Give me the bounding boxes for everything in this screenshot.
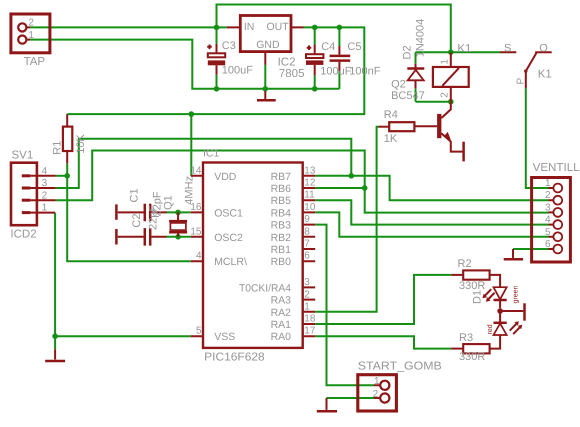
junction relay coil pin1 node (448, 49, 454, 55)
wire C5 bottom (338, 71, 340, 89)
svg-text:4: 4 (42, 166, 48, 177)
svg-text:SV1: SV1 (12, 149, 34, 161)
wire TAP pin1 to ground rail (30, 40, 339, 89)
wire C5 top (338, 27, 340, 46)
wire D2 anode down (415, 88, 417, 101)
svg-text:100nF: 100nF (349, 65, 380, 77)
svg-text:D1: D1 (472, 290, 484, 304)
resistor R2 (451, 270, 500, 286)
svg-text:2: 2 (440, 92, 451, 98)
junction relay coil pin2 node (448, 99, 454, 105)
svg-text:6: 6 (545, 239, 551, 250)
wire +5V to IC1 VDD (190, 114, 192, 176)
wire ground stub below VSS node (54, 336, 56, 349)
svg-text:7: 7 (304, 239, 310, 250)
wire C4 bottom (314, 75, 316, 89)
svg-text:S: S (504, 43, 511, 55)
svg-text:18: 18 (304, 314, 316, 325)
connector START_GOMB (358, 375, 397, 411)
svg-text:330R: 330R (459, 351, 485, 363)
junction RB6 (362, 185, 368, 191)
svg-text:O: O (539, 42, 548, 54)
capacitor C1 (116, 204, 166, 222)
wire 7805 GND to rail (264, 65, 266, 89)
svg-text:MCLR\: MCLR\ (214, 256, 247, 268)
wire RA0 to R3 (315, 336, 451, 348)
svg-text:3: 3 (304, 277, 310, 288)
svg-text:2: 2 (304, 289, 310, 300)
junction VDD tee (189, 111, 195, 117)
wire OSC1 (166, 211, 191, 213)
svg-text:5: 5 (196, 326, 202, 337)
svg-text:11: 11 (304, 190, 315, 201)
svg-text:7805: 7805 (279, 68, 305, 80)
connector VENTILL (532, 178, 571, 263)
svg-text:2: 2 (545, 190, 551, 201)
wire RB6 stub (315, 187, 365, 189)
svg-text:6: 6 (304, 251, 310, 262)
svg-text:1: 1 (28, 30, 34, 41)
wire RB5 to VENTILL pin4 (315, 200, 548, 224)
svg-text:15: 15 (190, 226, 202, 237)
svg-text:C1: C1 (129, 188, 141, 202)
LED D1 red (494, 314, 523, 336)
wire RA1 to R2 (315, 275, 451, 324)
relay K1 coil (433, 52, 469, 101)
junction OSC1 (175, 210, 181, 216)
junction C4 bottom (312, 86, 318, 92)
svg-text:RB3: RB3 (271, 220, 292, 232)
svg-text:100uF: 100uF (320, 65, 351, 77)
svg-text:RA2: RA2 (271, 307, 292, 319)
svg-text:K1: K1 (538, 69, 552, 81)
svg-text:VDD: VDD (214, 171, 237, 183)
junction RB7 (349, 173, 355, 179)
junction VSS ground (52, 333, 58, 339)
junction LED cathodes (497, 308, 503, 314)
svg-text:OSC2: OSC2 (214, 232, 243, 244)
svg-text:BC547: BC547 (391, 90, 425, 102)
svg-text:3: 3 (42, 178, 48, 189)
svg-text:1: 1 (42, 203, 48, 214)
junction C5 top (337, 25, 343, 31)
wire coil pin2 node (416, 101, 451, 103)
diode D2 (407, 64, 424, 89)
svg-text:5: 5 (545, 227, 551, 238)
junction OSC2 (175, 234, 181, 240)
junction VIN/C3 (214, 25, 220, 31)
wire SV1 pin1 to VSS and ground (55, 213, 191, 337)
ground below 7805 (257, 91, 276, 100)
wire SV1 pin3 to RB7 (56, 139, 352, 188)
svg-text:RB0: RB0 (271, 256, 292, 268)
svg-text:R2: R2 (458, 258, 472, 270)
svg-text:10K: 10K (75, 134, 87, 154)
svg-text:GND: GND (256, 39, 280, 51)
svg-text:RB2: RB2 (271, 232, 292, 244)
wire RA2 to R4 (315, 127, 378, 312)
svg-text:C3: C3 (222, 40, 236, 52)
svg-text:12: 12 (304, 178, 316, 189)
junction R1 bottom (64, 173, 70, 179)
wire top rail VIN to relay coil (217, 5, 451, 53)
svg-text:IC1: IC1 (203, 148, 220, 160)
svg-text:RB6: RB6 (271, 183, 292, 195)
svg-text:14: 14 (190, 165, 202, 176)
svg-text:Q1: Q1 (162, 195, 174, 210)
wire OSC2 (166, 236, 191, 238)
svg-text:ICD2: ICD2 (10, 228, 36, 240)
wire D2 cathode up (415, 52, 417, 64)
svg-text:C2: C2 (131, 214, 143, 228)
svg-text:1: 1 (374, 376, 380, 387)
svg-text:4: 4 (545, 215, 551, 226)
wire SV1 pin4 (56, 175, 68, 177)
svg-text:IN: IN (244, 21, 255, 33)
resistor R3 (451, 335, 500, 353)
svg-text:1: 1 (545, 178, 551, 189)
svg-text:PIC16F628: PIC16F628 (204, 351, 265, 363)
svg-text:8: 8 (304, 226, 310, 237)
ground below START_GOMB pin2 (317, 398, 337, 411)
svg-text:D2: D2 (402, 45, 414, 59)
capacitor C3 (207, 44, 225, 75)
wire TAP pin2 to 7805 IN (net VIN) (30, 26, 227, 28)
svg-text:T0CKI/RA4: T0CKI/RA4 (239, 282, 291, 294)
wire RB7 to VENTILL pin2 (315, 176, 548, 200)
junction C4 top (312, 25, 318, 31)
IC1 PIC16F628 (191, 163, 315, 348)
svg-text:OUT: OUT (267, 21, 290, 33)
capacitor C4 (306, 45, 323, 76)
svg-text:2: 2 (373, 389, 379, 400)
wire RB3 to START_GOMB pin1 (315, 225, 374, 386)
LED D1 green (482, 287, 506, 308)
svg-text:3: 3 (545, 202, 551, 213)
svg-text:green: green (513, 285, 520, 303)
svg-text:RA3: RA3 (271, 295, 292, 307)
wire R1 bottom to SV1 pin4 and MCLR (67, 163, 191, 261)
wire relay coil node to switch S (416, 51, 501, 53)
capacitor C5 (330, 46, 351, 71)
svg-text:K1: K1 (457, 43, 471, 55)
svg-text:4: 4 (196, 251, 202, 262)
switch K1 (500, 52, 552, 88)
svg-text:RB7: RB7 (271, 171, 292, 183)
svg-text:IC2: IC2 (278, 57, 296, 69)
wire C3 bottom (216, 75, 218, 89)
junction 7805 GND (263, 86, 269, 92)
svg-text:2: 2 (28, 18, 34, 29)
transistor Q2 (414, 102, 462, 152)
svg-text:P: P (516, 78, 527, 85)
svg-text:1K: 1K (384, 133, 398, 145)
ground at LED junction (500, 303, 524, 320)
svg-text:red: red (486, 324, 494, 334)
svg-text:RB5: RB5 (271, 195, 292, 207)
svg-text:Q2: Q2 (391, 78, 406, 90)
svg-text:9: 9 (304, 214, 310, 225)
connector SV1 (11, 163, 56, 226)
ground below Q2 emitter (462, 142, 465, 162)
resistor R1 (63, 114, 72, 163)
svg-text:TAP: TAP (24, 56, 46, 68)
capacitor C2 (116, 228, 166, 246)
wire C3 top (216, 27, 218, 44)
wire RB4 to VENTILL pin5 (315, 212, 548, 236)
svg-text:VENTILL: VENTILL (533, 162, 580, 174)
svg-text:RB4: RB4 (271, 207, 292, 219)
svg-text:VSS: VSS (214, 331, 235, 343)
wire START_GOMB pin2 to ground (327, 397, 375, 399)
connector TAP (11, 14, 50, 53)
svg-text:R3: R3 (459, 332, 473, 344)
wire VENTILL pin6 to ground (513, 248, 549, 250)
svg-text:C5: C5 (347, 41, 361, 53)
svg-text:RB1: RB1 (271, 244, 292, 256)
svg-text:2: 2 (42, 190, 48, 201)
wire SV1 pin2 to RB6 and VENTILL pin3 (56, 151, 549, 213)
wire 7805 OUT +5V rail (67, 27, 364, 114)
svg-text:1: 1 (304, 301, 310, 312)
ground at VENTILL pin6 (504, 249, 523, 259)
svg-text:START_GOMB: START_GOMB (358, 361, 442, 373)
wire switch P to VENTILL pin1 (526, 88, 549, 188)
svg-text:R1: R1 (52, 141, 64, 155)
voltage regulator IC2 7805 (227, 16, 304, 65)
svg-text:10: 10 (304, 202, 316, 213)
svg-text:OSC1: OSC1 (214, 207, 243, 219)
svg-text:RA0: RA0 (271, 331, 292, 343)
crystal Q1 (169, 212, 187, 236)
wire C4 top (314, 27, 316, 44)
svg-text:100uF: 100uF (222, 65, 253, 77)
svg-text:R4: R4 (384, 109, 398, 121)
svg-text:1N4004: 1N4004 (415, 19, 427, 58)
svg-text:16: 16 (190, 202, 202, 213)
ground below SV1 pin1 net (45, 349, 65, 361)
resistor R4 (379, 122, 415, 131)
svg-text:13: 13 (304, 165, 316, 176)
junction C3 bottom (214, 86, 220, 92)
svg-text:4MHz: 4MHz (183, 176, 195, 205)
svg-text:RA1: RA1 (271, 319, 292, 331)
svg-text:1: 1 (440, 59, 451, 65)
svg-text:C4: C4 (321, 41, 335, 53)
svg-text:17: 17 (304, 326, 316, 337)
